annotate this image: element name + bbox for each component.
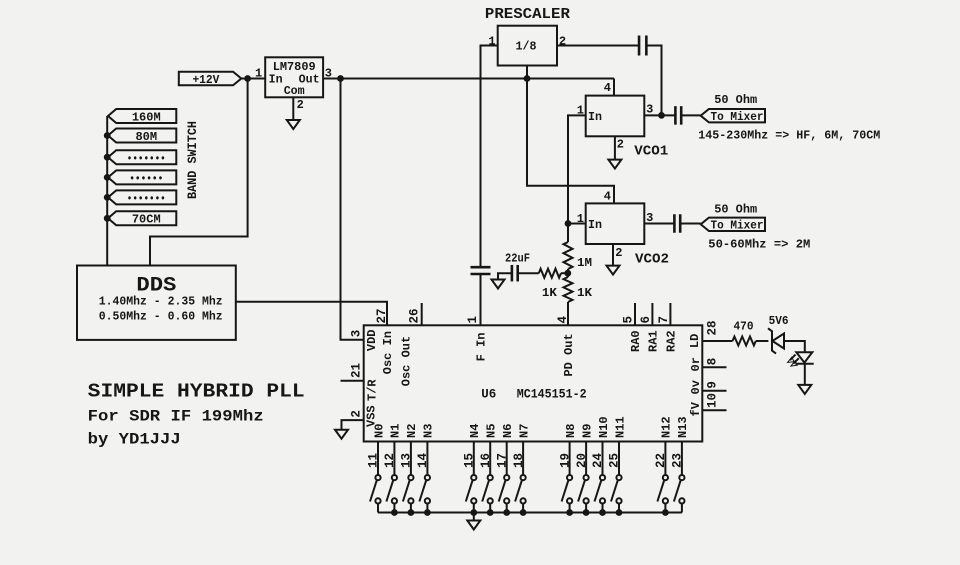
switch S-N8 [562, 475, 573, 504]
capacitor 22uF [512, 265, 518, 282]
resistor 1M tune [564, 242, 573, 269]
switch S-N5 [482, 475, 493, 504]
node rail junction [392, 510, 398, 516]
svg-text:For SDR IF 199Mhz: For SDR IF 199Mhz [88, 408, 264, 426]
resistor 470 [733, 337, 756, 346]
svg-text:VCO2: VCO2 [635, 251, 669, 267]
switch S-N4 [466, 475, 477, 504]
svg-text:1K: 1K [577, 286, 593, 300]
divider prescaler 1/8 body [498, 26, 557, 66]
node band bus junction [104, 154, 110, 160]
svg-text:145-230Mhz => HF, 6M, 70CM: 145-230Mhz => HF, 6M, 70CM [698, 128, 880, 142]
switch S-N2 [403, 475, 414, 504]
node +12V junction [245, 76, 251, 82]
node 9V rail junction at LM7809 output [338, 76, 344, 82]
wire U6 Osc Out pin 26 stub [421, 303, 423, 325]
wire 1M to junction [567, 269, 569, 277]
wire U6 pin 19 to switch [569, 442, 571, 476]
wire switch N8 to rail [569, 504, 571, 513]
switch S-N1 [386, 475, 397, 504]
flag band dots B [108, 170, 176, 184]
oscillator VCO2 body [586, 203, 645, 244]
node loop filter junction [565, 270, 571, 276]
svg-text:9: 9 [706, 381, 720, 389]
ground at 22uF [492, 280, 505, 289]
node rail junction [520, 510, 526, 516]
svg-text:MC145151-2: MC145151-2 [517, 388, 587, 402]
wire 9V rail down to VCO2 pin4 [527, 79, 614, 204]
wire F In cap to U6 pin 1 [480, 274, 482, 325]
node rail junction [600, 510, 606, 516]
ground at switch rail [467, 521, 480, 530]
switch S-N6 [499, 475, 510, 504]
switch S-N10 [595, 475, 606, 504]
svg-text:50 Ohm: 50 Ohm [714, 93, 757, 107]
wire switch N0 to rail [377, 504, 379, 513]
flag band 70CM [108, 211, 176, 225]
wire +12V flag to LM7809 In [241, 78, 265, 80]
svg-text:0v: 0v [689, 380, 703, 394]
wire switch N13 to rail [681, 504, 683, 513]
wire U6 pin 25 to switch [618, 442, 620, 476]
wire prescaler bottom to 9V rail [526, 66, 528, 79]
switch S-N9 [578, 475, 589, 504]
svg-text:4: 4 [604, 189, 611, 203]
node band bus junction [104, 215, 110, 221]
wire U6 pin 14 to switch [426, 442, 428, 476]
svg-text:In: In [269, 73, 283, 87]
wire switch N1 to rail [393, 504, 395, 513]
wire U6 pin 11 to switch [377, 442, 379, 476]
svg-text:1/8: 1/8 [516, 40, 537, 54]
svg-text:4: 4 [604, 81, 611, 95]
wire U6 pin 9 stub [702, 390, 726, 392]
wire VCO1 pin2 to ground [614, 136, 616, 159]
svg-text:N9: N9 [580, 424, 594, 438]
svg-text:To Mixer: To Mixer [710, 219, 763, 233]
wire U6 T/R pin 21 stub [341, 380, 364, 382]
wire U6 pin 10 stub [702, 409, 726, 411]
wire VCO2 output pin3 [644, 223, 674, 225]
wire U6 RA2 pin 7 stub [669, 303, 671, 325]
wire U6 pin 18 to switch [522, 442, 524, 476]
capacitor prescaler coupling [639, 36, 646, 56]
svg-text:N6: N6 [501, 424, 515, 438]
wire U6 pin 16 to switch [489, 442, 491, 476]
wire coupling cap to VCO1 output node [646, 46, 662, 116]
svg-text:1M: 1M [577, 256, 592, 270]
svg-text:0.50Mhz - 0.60 Mhz: 0.50Mhz - 0.60 Mhz [99, 310, 223, 324]
svg-text:VCO1: VCO1 [634, 143, 668, 159]
svg-text:50 Ohm: 50 Ohm [714, 203, 757, 217]
wire U6 pin 15 to switch [473, 442, 475, 476]
switch S-N12 [657, 475, 668, 504]
svg-text:1K: 1K [542, 286, 558, 300]
svg-text:10: 10 [706, 393, 720, 408]
node band bus junction [104, 133, 110, 139]
node rail junction [487, 510, 493, 516]
wire prescaler pin2 to coupling cap [557, 45, 639, 47]
svg-text:1.40Mhz - 2.35 Mhz: 1.40Mhz - 2.35 Mhz [99, 295, 223, 309]
wire U6 RA1 pin 6 stub [651, 303, 653, 325]
svg-text:In: In [588, 218, 602, 232]
svg-text:0r: 0r [689, 357, 703, 371]
wire band switch bus [106, 116, 108, 266]
wire switch N2 to rail [410, 504, 412, 513]
svg-text:In: In [588, 110, 602, 124]
wire switch N9 to rail [585, 504, 587, 513]
wire U6 pin 8 stub [702, 366, 726, 368]
svg-text:by YD1JJJ: by YD1JJJ [88, 431, 181, 449]
svg-text:RA0: RA0 [629, 330, 643, 352]
svg-text:80M: 80M [135, 130, 157, 144]
flag +12V shape [179, 72, 242, 86]
svg-text:•••••••: ••••••• [127, 194, 166, 206]
wire U6 pin 17 to switch [506, 442, 508, 476]
wire switch common rail [378, 512, 682, 514]
svg-text:160M: 160M [132, 110, 161, 124]
wire DDS output to U6 OscIn pin 27 [236, 302, 387, 326]
svg-text:RA1: RA1 [647, 330, 661, 352]
svg-text:Osc In: Osc In [381, 331, 395, 374]
wire cap to mixer flag 2 [680, 223, 701, 225]
wire zener to LED [783, 341, 804, 352]
capacitor VCO2 output coupling [674, 214, 680, 233]
svg-text:2: 2 [615, 246, 622, 260]
LED indicator [788, 352, 814, 366]
wire switch N11 to rail [618, 504, 620, 513]
node rail junction [663, 510, 669, 516]
wire LED to ground [804, 364, 806, 385]
node rail junction [616, 510, 622, 516]
oscillator VCO1 body [586, 96, 645, 137]
svg-text:U6: U6 [481, 388, 496, 402]
wire U6 pin 12 to switch [393, 442, 395, 476]
switch S-N0 [370, 475, 381, 504]
wire switch N4 to rail [473, 504, 475, 513]
wire switch N6 to rail [506, 504, 508, 513]
svg-text:F In: F In [475, 333, 489, 362]
svg-text:BAND SWITCH: BAND SWITCH [186, 121, 200, 199]
ground at LM7809 Com [287, 120, 300, 129]
node rail junction [471, 510, 477, 516]
switch S-N3 [419, 475, 430, 504]
wire cap to mixer flag 1 [681, 114, 701, 116]
resistor 1K horizontal [539, 269, 561, 278]
regulator LM7809 body [265, 57, 323, 97]
svg-text:N11: N11 [613, 416, 627, 438]
svg-text:N13: N13 [676, 416, 690, 438]
node rail junction [408, 510, 414, 516]
svg-text:5: 5 [622, 316, 636, 324]
node band bus junction [104, 175, 110, 181]
svg-text:1: 1 [255, 67, 262, 81]
svg-text:N8: N8 [564, 424, 578, 438]
wire LM7809 Com pin 2 [292, 97, 294, 120]
wire VCO2 In pin1 [568, 223, 586, 225]
svg-text:N7: N7 [517, 424, 531, 438]
wire switch N5 to rail [489, 504, 491, 513]
svg-text:2: 2 [617, 137, 624, 151]
wire U6 LD pin 28 to resistor 470 [702, 340, 732, 342]
wire VCO2 pin2 to ground [612, 244, 614, 266]
svg-text:6: 6 [639, 316, 653, 324]
svg-text:PRESCALER: PRESCALER [485, 6, 570, 23]
wire switch N7 to rail [522, 504, 524, 513]
ground at VCO2 [607, 266, 620, 275]
svg-text:N12: N12 [660, 416, 674, 438]
svg-text:PD Out: PD Out [562, 333, 576, 376]
svg-text:5V6: 5V6 [769, 314, 789, 328]
svg-text:28: 28 [706, 320, 720, 335]
wire U6 RA0 pin 5 stub [634, 303, 636, 325]
svg-text:•••••••: ••••••• [127, 154, 166, 166]
wire U6 VSS pin 2 to ground [342, 420, 364, 430]
svg-text:7: 7 [657, 316, 671, 324]
svg-text:+12V: +12V [192, 73, 220, 87]
wire 9V rail to U6 VDD pin 3 [341, 79, 364, 340]
svg-text:2: 2 [297, 98, 304, 112]
svg-text:fV: fV [689, 401, 703, 416]
wire U6 pin 13 to switch [410, 442, 412, 476]
switch S-N11 [611, 475, 622, 504]
svg-text:26: 26 [408, 308, 422, 323]
node band bus junction [104, 195, 110, 201]
svg-text:LD: LD [688, 334, 702, 348]
svg-text:27: 27 [375, 308, 389, 323]
zener diode 5V6 [768, 328, 784, 353]
svg-text:SIMPLE HYBRID PLL: SIMPLE HYBRID PLL [88, 381, 305, 403]
wire U6 pin 20 to switch [585, 442, 587, 476]
node rail junction [583, 510, 589, 516]
svg-text:70CM: 70CM [132, 213, 161, 227]
wire +12V to DDS supply [150, 79, 248, 266]
wire VCO1 In to tune line [568, 115, 586, 242]
svg-text:Osc Out: Osc Out [399, 336, 413, 386]
flag To Mixer upper [701, 109, 765, 122]
svg-text:To Mixer: To Mixer [710, 110, 763, 124]
capacitor VCO1 output coupling [675, 106, 681, 125]
svg-text:21: 21 [349, 363, 363, 378]
wire 9V rail into VCO1 pin4 [613, 79, 615, 96]
svg-text:Com: Com [284, 84, 305, 98]
node VCO2 tune junction [565, 221, 571, 227]
IC U6 MC145151-2 body [364, 325, 703, 441]
svg-text:T/R: T/R [366, 379, 380, 401]
wire 470 to zener [756, 340, 769, 342]
module DDS body [77, 266, 236, 340]
switch S-N13 [674, 475, 685, 504]
flag band dots A [108, 150, 176, 164]
node rail junction [425, 510, 431, 516]
svg-text:VDD: VDD [365, 330, 379, 352]
flag band 160M [108, 109, 176, 123]
wire 22uF to 1K [518, 272, 539, 274]
node rail junction [504, 510, 510, 516]
svg-text:N2: N2 [405, 424, 419, 438]
svg-text:4: 4 [556, 316, 570, 324]
wire U6 pin 24 to switch [602, 442, 604, 476]
node VCO1 output junction [659, 113, 665, 119]
node rail junction [567, 510, 573, 516]
svg-text:1: 1 [466, 316, 480, 324]
ground at LED [798, 385, 811, 394]
wire switch N10 to rail [602, 504, 604, 513]
capacitor F In series [471, 267, 491, 274]
svg-text:3: 3 [349, 330, 363, 338]
svg-text:RA2: RA2 [665, 330, 679, 352]
flag To Mixer lower [701, 218, 765, 231]
node junction prescaler feed [524, 76, 530, 82]
wire 1K to junction stub [561, 272, 568, 274]
svg-text:50-60Mhz => 2M: 50-60Mhz => 2M [708, 237, 810, 251]
flag band dots C [108, 190, 176, 204]
resistor 1K vertical [564, 277, 573, 302]
svg-text:N3: N3 [422, 424, 436, 438]
svg-text:N0: N0 [372, 424, 386, 438]
switch S-N7 [515, 475, 526, 504]
svg-text:2: 2 [349, 410, 363, 418]
flag band 80M [108, 129, 176, 143]
svg-text:N5: N5 [485, 424, 499, 438]
wire U6 pin 23 to switch [681, 442, 683, 476]
wire prescaler pin1 to F In cap [481, 46, 498, 268]
wire VCO1 output pin3 [644, 114, 675, 116]
wire switch N3 to rail [426, 504, 428, 513]
wire 1K to U6 PD Out pin 4 [567, 302, 569, 325]
svg-text:N4: N4 [468, 424, 482, 438]
svg-text:N10: N10 [597, 416, 611, 438]
svg-text:••••••: •••••• [129, 174, 163, 186]
svg-text:470: 470 [734, 320, 754, 334]
svg-text:N1: N1 [389, 424, 403, 438]
svg-text:22uF: 22uF [505, 252, 530, 266]
wire switch N12 to rail [664, 504, 666, 513]
svg-text:8: 8 [706, 358, 720, 366]
wire U6 pin 22 to switch [664, 442, 666, 476]
ground at U6 VSS [335, 430, 348, 439]
ground at VCO1 [608, 160, 621, 169]
wire 22uF to ground [498, 273, 512, 279]
wire rail ground stub [473, 513, 475, 521]
wire LM7809 Out to 9V rail [323, 78, 614, 80]
